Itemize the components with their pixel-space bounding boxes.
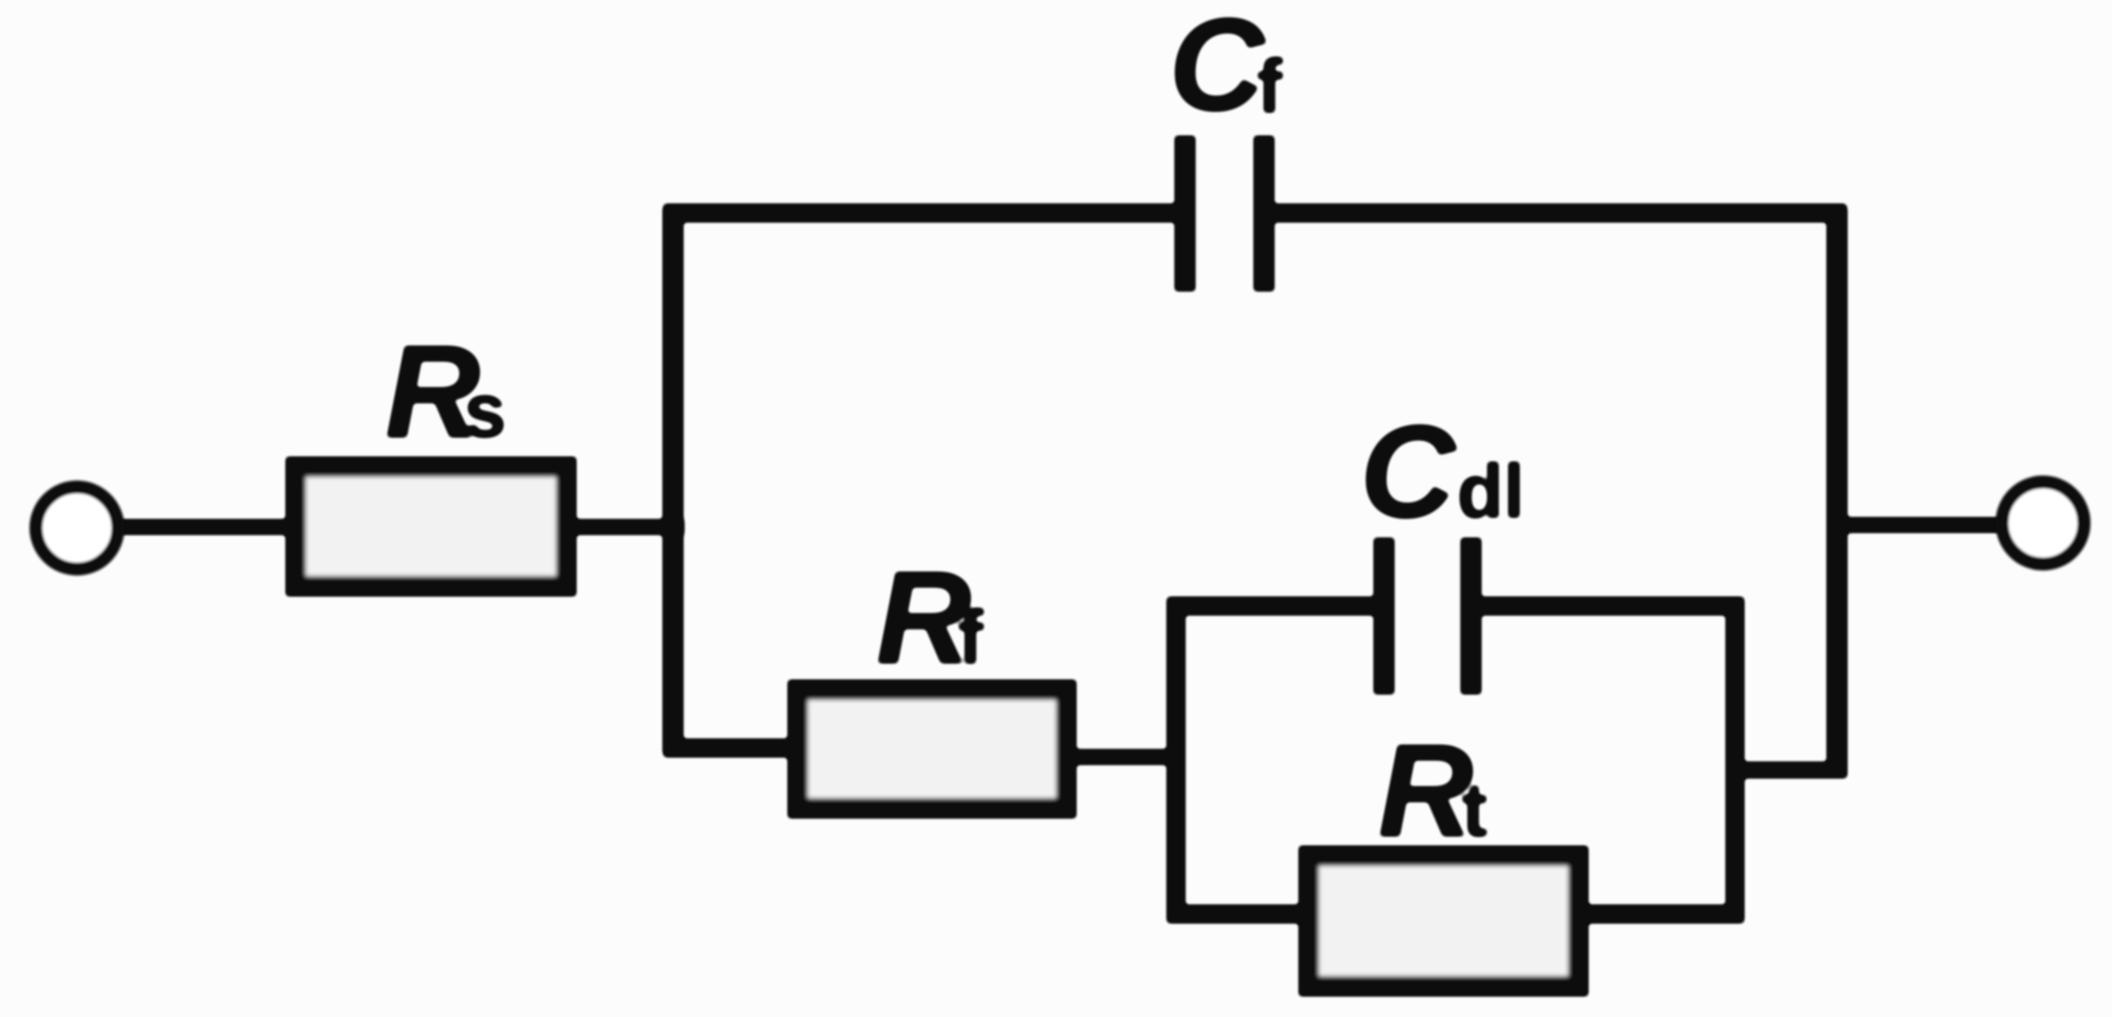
svg-text:dl: dl <box>1457 449 1525 534</box>
capacitor C_dl right plate <box>1461 538 1481 694</box>
svg-text:C: C <box>1169 0 1266 138</box>
svg-text:s: s <box>464 369 506 454</box>
svg-text:f: f <box>1257 44 1283 129</box>
svg-text:t: t <box>1462 768 1487 853</box>
svg-text:f: f <box>958 595 984 680</box>
wire Rf to parallel loop <box>1067 750 1185 765</box>
loop top wire right <box>1471 597 1743 615</box>
wire left terminal to Rs <box>117 520 296 535</box>
parallel loop left vertical wire <box>1167 598 1185 922</box>
label Rs <box>385 318 506 465</box>
wire Rs to node A <box>568 520 684 535</box>
capacitor C_f right plate <box>1254 136 1274 291</box>
wire node B to right terminal <box>1846 518 2003 533</box>
loop bottom wire left <box>1168 905 1308 923</box>
wire top branch left <box>664 204 1185 222</box>
node B vertical wire <box>1827 207 1847 777</box>
resistor Rt body <box>1309 856 1578 986</box>
parallel loop right vertical wire <box>1726 598 1744 922</box>
terminal left <box>36 487 118 569</box>
capacitor C_dl left plate <box>1374 538 1394 694</box>
wire loop to node B <box>1735 762 1846 778</box>
resistor Rs body <box>296 467 566 586</box>
label Rf <box>876 544 984 691</box>
wire bottom branch to Rf <box>664 739 797 757</box>
svg-text:R: R <box>1378 717 1473 864</box>
capacitor C_f left plate <box>1175 136 1195 291</box>
label Cdl <box>1360 398 1525 545</box>
loop top wire left <box>1168 597 1384 615</box>
svg-text:C: C <box>1360 398 1457 545</box>
label Cf <box>1169 0 1283 138</box>
wire top branch right <box>1264 204 1846 222</box>
terminal right <box>2002 482 2084 564</box>
loop bottom wire right <box>1580 905 1743 923</box>
node A vertical wire <box>663 207 683 754</box>
label Rt <box>1378 717 1487 864</box>
resistor Rf body <box>798 690 1066 808</box>
